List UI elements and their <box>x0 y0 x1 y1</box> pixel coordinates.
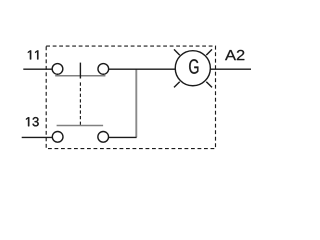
dashed mechanical linkage <box>79 82 81 125</box>
dashed enclosure box <box>46 46 215 149</box>
terminal circle (contact 11 right) <box>98 64 109 75</box>
label A2 <box>225 50 244 60</box>
bridge bar of contact 11 (closed) <box>55 75 105 77</box>
wire: bottom rung to junction corner <box>109 136 137 138</box>
wire: bottom rung left lead to contact 13 <box>22 136 53 138</box>
lamp letter G <box>189 59 198 74</box>
bridge bar of contact 13 (open) <box>57 125 104 127</box>
lamp ray lower-left <box>174 82 180 88</box>
indicator lamp G body <box>175 51 210 86</box>
terminal circle (contact 13 right) <box>98 132 109 143</box>
lamp ray upper-left <box>174 49 180 55</box>
lamp ray upper-right <box>206 49 212 55</box>
lamp ray lower-right <box>206 82 212 88</box>
wire: top rung left lead to contact 11 <box>23 68 52 70</box>
wire: vertical branch to top rung <box>135 69 137 137</box>
terminal circle (contact 11 left) <box>52 64 63 75</box>
wire: lamp to terminal A2 <box>210 68 251 70</box>
terminal circle (contact 13 left) <box>52 132 63 143</box>
label 11 <box>28 50 38 59</box>
actuator tick on contact 11 <box>79 63 81 79</box>
wire: top contact to lamp <box>109 68 176 70</box>
label 13 <box>26 117 39 126</box>
